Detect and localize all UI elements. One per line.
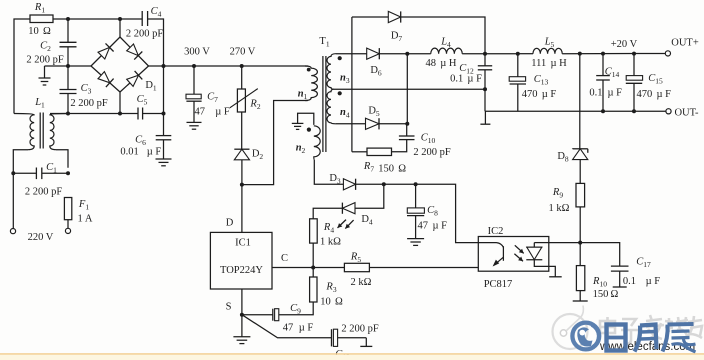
ground stub R10 bbox=[573, 291, 588, 301]
node drain junction bbox=[240, 183, 244, 187]
svg-text:470 µ F: 470 µ F bbox=[522, 89, 557, 100]
node junction rectifier output A bbox=[405, 52, 409, 56]
capacitor C3 bbox=[60, 90, 77, 94]
polarity dot n3 bbox=[338, 56, 342, 60]
wire D8 to R9 bbox=[579, 160, 581, 184]
svg-text:47: 47 bbox=[194, 107, 205, 118]
core of L1 bbox=[40, 113, 43, 149]
capacitor C4 bbox=[142, 11, 147, 26]
ground stub OUT- rail bbox=[480, 111, 490, 124]
wire right vertical 300V node to C6 bbox=[163, 66, 165, 136]
diode D8 zener bbox=[573, 148, 588, 159]
svg-text:1 kΩ: 1 kΩ bbox=[320, 237, 341, 248]
transformer secondary winding n4 bbox=[327, 89, 336, 124]
wire OUT- drop bbox=[484, 89, 486, 111]
node junction bridge top AC bbox=[118, 17, 122, 21]
wire C10 top lead bbox=[406, 124, 408, 136]
node junction C8 top bbox=[414, 182, 418, 186]
svg-text:µ F: µ F bbox=[646, 276, 661, 287]
bridge diode D1c bottom-left bbox=[98, 72, 114, 88]
capacitor C14 bbox=[596, 76, 610, 80]
wire C19 to stub bbox=[338, 337, 367, 339]
wire D5 to snubber node bbox=[379, 123, 407, 125]
ground C7 bbox=[187, 101, 202, 129]
wire C13 bottom lead bbox=[517, 84, 519, 111]
wire bridge right corner to 300V node bbox=[149, 65, 164, 67]
node junction C2-bridge-left-ground bbox=[66, 64, 70, 68]
capacitor C10 bbox=[399, 136, 415, 140]
svg-text:10 Ω: 10 Ω bbox=[320, 297, 343, 308]
wire center tap to OUT- corner bbox=[334, 88, 485, 90]
wire C15 bottom lead bbox=[633, 83, 635, 111]
wire C13 top lead bbox=[517, 54, 519, 77]
wire C2 bottom lead bbox=[67, 47, 69, 66]
wire lower AC line bbox=[50, 113, 138, 115]
svg-text:TOP224Y: TOP224Y bbox=[220, 265, 263, 276]
wire D8 branch from +20V bbox=[579, 54, 581, 149]
svg-text:µ F: µ F bbox=[608, 88, 623, 99]
wire LED anode from divider bbox=[534, 242, 549, 244]
node junction bridge bottom AC bbox=[118, 112, 122, 116]
svg-text:47: 47 bbox=[283, 323, 294, 334]
svg-text:C: C bbox=[281, 253, 288, 264]
svg-text:2 200 pF: 2 200 pF bbox=[341, 324, 379, 335]
wire ground stub from C2 node bbox=[45, 65, 69, 67]
wire OUT- rail bbox=[485, 110, 666, 112]
wire L1 left bottom to 220V-L bbox=[13, 150, 28, 229]
polarity dot n4 bbox=[338, 91, 342, 95]
bridge rectifier D1 diamond bbox=[91, 37, 149, 92]
svg-text:PC817: PC817 bbox=[484, 279, 513, 290]
wire L4 node to C13 node bbox=[485, 53, 518, 55]
resistor R7 bbox=[367, 148, 392, 155]
wire C8 top lead bbox=[415, 184, 417, 208]
inductor L1 right winding bbox=[50, 114, 68, 150]
polarity dot n2 bbox=[307, 128, 311, 132]
wire D4 to D3 node bbox=[355, 184, 384, 208]
polarity dot n1 bbox=[307, 68, 311, 72]
svg-text:D: D bbox=[226, 218, 234, 229]
arrow light mark b in IC2 bbox=[514, 254, 523, 261]
ground stub C17 bbox=[613, 271, 627, 287]
wire bias node to collector drop bbox=[384, 184, 479, 242]
wire 300V rail bbox=[164, 65, 309, 67]
diode D3 bbox=[343, 179, 355, 190]
svg-text:0.1 µ F: 0.1 µ F bbox=[450, 74, 482, 85]
capacitor C17 bbox=[611, 266, 629, 271]
wire node A to L4 bbox=[407, 53, 431, 55]
diode D4 bbox=[342, 203, 355, 214]
svg-text:µ F: µ F bbox=[147, 147, 162, 158]
svg-text:2 200 pF: 2 200 pF bbox=[126, 29, 164, 40]
svg-text:OUT-: OUT- bbox=[674, 108, 699, 119]
svg-text:10 Ω: 10 Ω bbox=[28, 26, 51, 37]
inductor L4 bbox=[431, 48, 462, 54]
svg-text:470 µ F: 470 µ F bbox=[637, 89, 672, 100]
svg-text:µ F: µ F bbox=[215, 107, 230, 118]
wire fuse bottom lead bbox=[67, 220, 69, 229]
wire divider to IC2 LED anode bbox=[549, 242, 580, 244]
wire C3 bottom lead bbox=[67, 94, 69, 114]
wire D6 to node A bbox=[379, 53, 407, 55]
wire D7 top rail bbox=[352, 16, 388, 18]
wire R3 bottom to C9 bbox=[279, 302, 313, 315]
terminal OUT- bbox=[666, 109, 671, 114]
capacitor C8 electrolytic bbox=[407, 208, 424, 216]
wire n2 bottom to D3 bbox=[314, 160, 343, 185]
wire R4 to D4 bbox=[313, 208, 342, 219]
wire drain node to primary return bbox=[242, 101, 308, 185]
wire 220V L line to R1 rail bbox=[14, 19, 30, 114]
wire IC1 C pin to R5 and IC2 bbox=[272, 267, 344, 269]
svg-text:S: S bbox=[226, 302, 232, 313]
ground n2 bbox=[292, 123, 304, 129]
wire R9 to divider node bbox=[579, 207, 581, 243]
wire secondary left vertical bus bbox=[351, 17, 353, 152]
wire C2 top lead bbox=[67, 19, 69, 42]
svg-text:IC1: IC1 bbox=[235, 238, 251, 249]
svg-text:0.1: 0.1 bbox=[623, 276, 636, 287]
node junction R1-C2 bbox=[66, 17, 70, 21]
bridge diode D1d bottom-right bbox=[127, 71, 143, 87]
wire C14 top lead bbox=[602, 54, 604, 76]
node divider junction bbox=[578, 241, 582, 245]
thermistor R2 diagonal bbox=[230, 89, 258, 108]
wire R2 top lead bbox=[241, 66, 243, 89]
node junction R2 clamp bbox=[240, 64, 244, 68]
capacitor C12 bbox=[478, 66, 492, 70]
arrow LED light mark b at D4 bbox=[345, 220, 353, 229]
svg-text:300 V: 300 V bbox=[184, 47, 210, 58]
node junction D3-D4 bbox=[382, 182, 386, 186]
resistor R3 bbox=[310, 277, 317, 302]
resistor R9 bbox=[576, 183, 585, 207]
capacitor C7 electrolytic bbox=[186, 94, 202, 101]
node junction C7 bbox=[192, 64, 196, 68]
wire bridge bottom corner lead bbox=[119, 92, 121, 114]
ground C6 bbox=[156, 140, 172, 166]
arrow light mark a in IC2 bbox=[515, 245, 524, 253]
diode D5 bbox=[366, 118, 380, 129]
wire bridge left corner to C2 node bbox=[68, 65, 91, 67]
inductor L1 left winding bbox=[14, 114, 34, 150]
ground primary left bbox=[39, 66, 51, 85]
svg-text:µ F: µ F bbox=[433, 221, 448, 232]
node junction C1 right bbox=[66, 171, 70, 175]
ground bar LED cathode bbox=[549, 276, 562, 278]
node junction 300V rail left bbox=[162, 64, 166, 68]
wire C13 node to L5 bbox=[518, 53, 533, 55]
transistor Q1 phototransistor in IC2 bbox=[478, 243, 503, 267]
wire C9 to S node bbox=[242, 314, 273, 316]
svg-text:2 200 pF: 2 200 pF bbox=[70, 98, 108, 109]
wire n2 ground bracket bbox=[298, 113, 314, 125]
svg-text:1 kΩ: 1 kΩ bbox=[549, 203, 570, 214]
arrow LED light mark a at D4 bbox=[338, 220, 347, 228]
inductor L5 bbox=[533, 48, 562, 53]
wire snubber left leg bbox=[352, 151, 367, 153]
wire R10 top lead bbox=[579, 243, 581, 266]
node junction C5-C6 bbox=[162, 112, 166, 116]
node junction D5 cathode bbox=[405, 122, 409, 126]
node junction C14 bottom bbox=[601, 109, 605, 113]
transformer secondary winding n3 bbox=[327, 54, 336, 89]
bridge diode D1b top-right bbox=[127, 44, 143, 60]
svg-text:2 200 pF: 2 200 pF bbox=[413, 147, 451, 158]
wire C12 bottom lead bbox=[484, 70, 486, 89]
ground C8 bbox=[407, 216, 424, 246]
wire R2 to D2 bbox=[241, 112, 243, 149]
wire R4 bottom lead bbox=[312, 243, 314, 267]
capacitor C9 electrolytic bbox=[273, 309, 279, 321]
capacitor C13 electrolytic bbox=[509, 77, 526, 84]
LED D9 in IC2 bbox=[526, 243, 542, 260]
op-amp U1 IC1 TOP224Y body bbox=[210, 232, 272, 289]
node junction D8 top bbox=[578, 52, 582, 56]
capacitor C2 bbox=[60, 42, 77, 47]
node junction C15 bottom bbox=[632, 109, 636, 113]
svg-text:OUT+: OUT+ bbox=[671, 38, 699, 49]
terminal 220V L bbox=[10, 229, 15, 234]
wire C1 left lead bbox=[13, 172, 36, 174]
capacitor C1 bbox=[36, 168, 41, 180]
op-amp U2 IC2 PC817 body bbox=[478, 237, 549, 272]
svg-text:IC2: IC2 bbox=[488, 226, 504, 237]
wire L4 to C12 node bbox=[462, 53, 485, 55]
svg-text:0.01: 0.01 bbox=[120, 147, 138, 158]
wire IC1 drain pin bbox=[241, 185, 243, 233]
ground stub C19 bbox=[360, 338, 372, 347]
svg-text:48 µ H: 48 µ H bbox=[426, 58, 457, 69]
wire C12 top lead bbox=[484, 54, 486, 66]
wire node A vertical bbox=[406, 54, 408, 124]
wire divider to C17 bbox=[580, 243, 620, 267]
wire +20V rail bbox=[562, 53, 665, 55]
wire bridge top corner lead bbox=[119, 19, 121, 37]
wire C14 bottom lead bbox=[602, 80, 604, 111]
transformer primary winding n1 bbox=[305, 66, 317, 101]
node junction control pin bbox=[311, 266, 315, 270]
wire S node diagonal to C19 bbox=[242, 315, 332, 338]
svg-text:µ F: µ F bbox=[299, 323, 314, 334]
wire C4 to right vertical bbox=[148, 19, 164, 66]
transformer bias winding n2 bbox=[314, 126, 320, 160]
decorative bottom strip bbox=[0, 353, 704, 355]
bridge diode D1a top-left bbox=[98, 43, 114, 59]
watermark logo elecfans bbox=[553, 306, 703, 354]
svg-text:+20 V: +20 V bbox=[611, 39, 638, 50]
thermistor R2 bbox=[237, 89, 245, 112]
wire R7 to C10 bbox=[392, 140, 407, 152]
wire L1 right bottom to fuse bbox=[56, 150, 68, 168]
wire C15 top lead bbox=[633, 54, 635, 76]
svg-text:0.1: 0.1 bbox=[589, 88, 602, 99]
terminal OUT+ bbox=[665, 51, 670, 56]
fuse F1 bbox=[64, 198, 71, 220]
terminal 220V N bbox=[65, 228, 70, 233]
node junction C15 top bbox=[632, 52, 636, 56]
svg-text:R7 150 Ω: R7 150 Ω bbox=[363, 161, 406, 175]
node junction C3 bottom bbox=[66, 112, 70, 116]
wire D3 to node bbox=[356, 183, 384, 185]
wire C7 top lead bbox=[193, 66, 195, 94]
svg-text:2 200 pF: 2 200 pF bbox=[26, 55, 64, 66]
wire C3 top lead bbox=[67, 66, 69, 90]
wire D7 to output corner bbox=[401, 17, 485, 54]
resistor R10 bbox=[576, 266, 584, 291]
node junction C13 top bbox=[516, 52, 520, 56]
wire IC1 S pin bbox=[241, 289, 243, 315]
transformer T1 core bbox=[323, 56, 326, 152]
capacitor C5 bbox=[138, 108, 143, 120]
svg-text:150 Ω: 150 Ω bbox=[593, 289, 619, 300]
wire R3 top lead bbox=[312, 268, 314, 278]
wire C1 right lead bbox=[42, 172, 68, 174]
resistor R4 bbox=[310, 219, 318, 243]
svg-text:47: 47 bbox=[418, 221, 429, 232]
wire C5 right lead bbox=[143, 113, 164, 115]
svg-text:2 kΩ: 2 kΩ bbox=[351, 277, 372, 288]
svg-text:111 µ H: 111 µ H bbox=[531, 58, 567, 69]
wire D2 to drain node bbox=[241, 160, 243, 185]
svg-text:1 A: 1 A bbox=[78, 214, 93, 225]
wire n3 to D6 bbox=[336, 53, 367, 55]
diode D7 bbox=[388, 11, 400, 22]
diode D6 bbox=[367, 48, 380, 59]
diode D2 bbox=[234, 149, 249, 160]
svg-text:2 200 pF: 2 200 pF bbox=[25, 187, 63, 198]
wire R5 to IC2 emitter bbox=[369, 267, 493, 269]
wire R1 to C2/bridge-top rail bbox=[53, 18, 142, 20]
capacitor C19 electrolytic bbox=[332, 329, 338, 346]
ground source pin bbox=[233, 315, 250, 344]
resistor R5 bbox=[344, 263, 369, 271]
svg-text:220 V: 220 V bbox=[28, 232, 54, 243]
capacitor C15 electrolytic bbox=[626, 76, 643, 84]
node junction C14 top bbox=[601, 52, 605, 56]
resistor R1 bbox=[30, 15, 53, 23]
node junction L4 out bbox=[483, 52, 487, 56]
svg-text:270 V: 270 V bbox=[230, 47, 256, 58]
capacitor C6 bbox=[156, 136, 172, 140]
wire n4 to D5 bbox=[336, 123, 366, 125]
node junction C12 bottom bbox=[483, 87, 487, 91]
node junction C1 left bbox=[11, 171, 15, 175]
node source junction bbox=[240, 313, 244, 317]
wire LED cathode to stub bbox=[534, 260, 555, 277]
